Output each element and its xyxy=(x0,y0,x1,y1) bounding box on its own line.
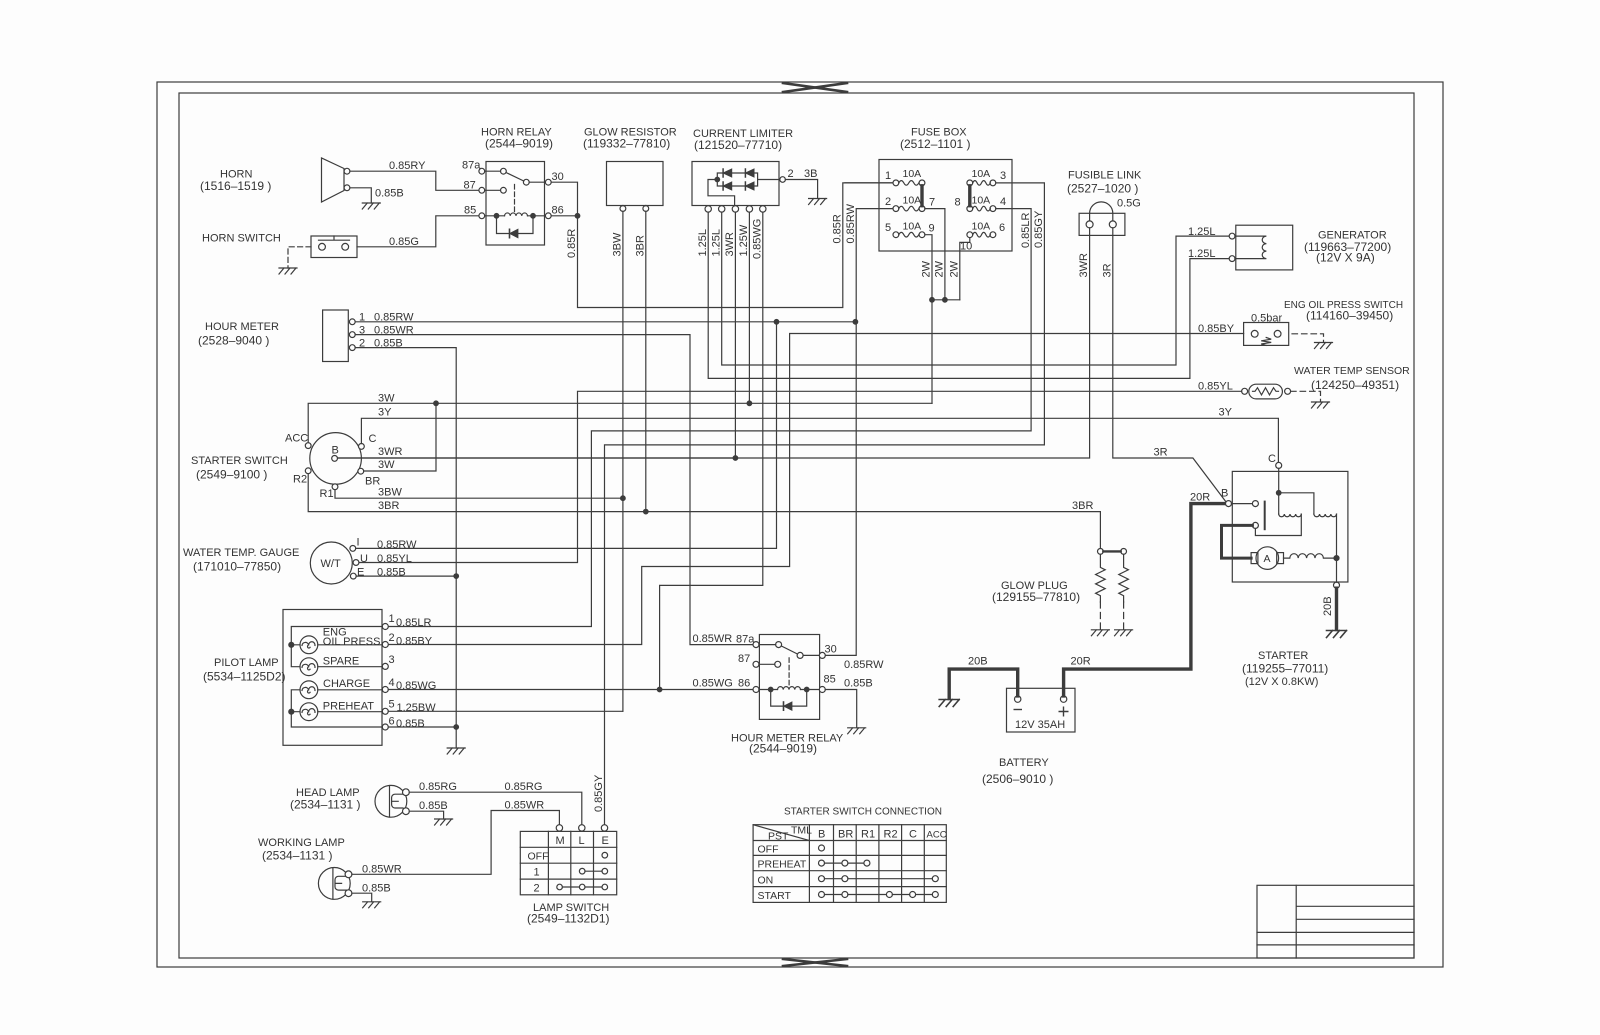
pilot lamp terminal 6 xyxy=(382,724,388,730)
svg-text:0.85WR: 0.85WR xyxy=(374,325,414,337)
wire 20R battery to starter B xyxy=(1064,504,1225,696)
svg-text:W/T: W/T xyxy=(321,558,341,570)
svg-text:FUSIBLE LINK: FUSIBLE LINK xyxy=(1068,170,1142,182)
wire 0.85B hour meter 2 xyxy=(355,348,456,748)
fuse box xyxy=(879,160,1012,252)
wire 0.85WR hour meter 3 to relay 87a xyxy=(355,335,753,645)
svg-text:(2544–9019): (2544–9019) xyxy=(749,742,817,756)
horn relay terminal 87 xyxy=(479,187,485,193)
svg-text:C: C xyxy=(909,829,917,841)
svg-text:(2534–1131 ): (2534–1131 ) xyxy=(262,849,333,863)
svg-text:I: I xyxy=(357,537,360,549)
horn relay dashed link xyxy=(514,185,516,214)
glow plug terminal right xyxy=(1121,549,1127,555)
cut mark top xyxy=(783,83,847,92)
svg-text:6: 6 xyxy=(389,716,395,728)
wire 2W junction down to 3W xyxy=(931,300,933,404)
pilot lamp terminal 3 xyxy=(382,663,388,669)
node 0.85RW gauge riser xyxy=(774,320,779,325)
svg-text:3R: 3R xyxy=(1154,447,1168,459)
hour meter terminal 1 xyxy=(349,319,355,325)
pilot lamp terminal 4 xyxy=(382,687,388,693)
starter pull-in coil xyxy=(1314,514,1337,517)
hour meter terminal 2 xyxy=(349,345,355,351)
starter contact bar xyxy=(1264,502,1266,530)
svg-text:PREHEAT: PREHEAT xyxy=(323,701,374,713)
glow resistor box xyxy=(607,162,664,206)
svg-text:(114160–39450): (114160–39450) xyxy=(1306,309,1393,323)
pilot lamp bulb charge xyxy=(300,681,318,699)
wire 0.85R node to fuse 1 xyxy=(578,183,893,308)
fusible link box xyxy=(1079,213,1125,235)
svg-text:HORN SWITCH: HORN SWITCH xyxy=(202,233,281,245)
svg-text:0.85LR: 0.85LR xyxy=(396,617,432,629)
node 0.85B pilot6 xyxy=(454,725,459,730)
hour meter relay armature pivot xyxy=(797,652,803,658)
node 3WR pin4 xyxy=(733,456,738,461)
current limiter bridge rails xyxy=(717,173,780,186)
horn terminal bottom xyxy=(344,185,350,191)
svg-text:87: 87 xyxy=(464,180,476,192)
svg-text:1.25L: 1.25L xyxy=(1188,226,1216,238)
svg-text:1: 1 xyxy=(534,867,540,879)
wire 0.85RY horn to relay 87 xyxy=(350,171,479,190)
hour meter relay inner contact 87a xyxy=(776,642,782,648)
ground 20B starter xyxy=(1327,631,1347,638)
svg-text:BR: BR xyxy=(365,476,380,488)
svg-text:4: 4 xyxy=(389,677,395,689)
current limiter diode 1 xyxy=(722,169,724,177)
svg-text:0.85LR: 0.85LR xyxy=(1020,212,1032,248)
pilot lamp box xyxy=(283,610,382,746)
svg-text:SPARE: SPARE xyxy=(323,656,359,668)
svg-text:20R: 20R xyxy=(1071,656,1091,668)
svg-text:1: 1 xyxy=(359,312,365,324)
table header diagonal xyxy=(753,825,809,841)
pilot lamp bulb preheat xyxy=(300,703,318,721)
fuse box bus bar left xyxy=(920,186,923,206)
wire 3W ACC run xyxy=(308,403,932,442)
svg-text:E: E xyxy=(602,835,609,847)
svg-text:C: C xyxy=(1268,453,1276,465)
starter switch terminal C xyxy=(359,444,365,450)
hour meter relay coil junction right xyxy=(804,687,809,692)
title block xyxy=(1257,885,1414,958)
hour meter box xyxy=(323,310,349,362)
hour meter relay terminal 30 xyxy=(819,652,825,658)
starter hold-in coil xyxy=(1279,514,1302,517)
wire 0.85WG pilot4 to relay 86 xyxy=(388,689,753,691)
svg-text:3Y: 3Y xyxy=(1219,407,1233,419)
eng oil press switch contact left xyxy=(1251,330,1258,337)
horn symbol xyxy=(322,158,345,202)
svg-text:10: 10 xyxy=(960,241,972,253)
svg-text:1.25BW: 1.25BW xyxy=(397,702,437,714)
fusible link element arc xyxy=(1090,202,1113,221)
current limiter pin 5 xyxy=(746,206,752,212)
svg-text:3Y: 3Y xyxy=(378,407,392,419)
svg-text:86: 86 xyxy=(552,205,564,217)
current limiter internal step xyxy=(708,180,735,206)
svg-text:1.25L: 1.25L xyxy=(697,229,709,257)
svg-text:BR: BR xyxy=(838,829,853,841)
horn switch contact right xyxy=(342,243,349,250)
glow resistor pin right xyxy=(643,206,649,212)
water temp gauge body xyxy=(310,542,352,584)
svg-text:0.85GY: 0.85GY xyxy=(593,774,605,812)
hour meter relay inner contact 87 xyxy=(775,661,781,667)
svg-text:(5534–1125D2): (5534–1125D2) xyxy=(203,670,286,684)
wire 0.85RG head lamp to lamp switch L xyxy=(409,792,582,825)
wire 0.85WG pin6 route xyxy=(660,212,763,689)
lamp switch terminal E xyxy=(601,825,607,831)
svg-text:4: 4 xyxy=(1000,196,1006,208)
svg-text:2W: 2W xyxy=(949,260,961,277)
svg-text:3BR: 3BR xyxy=(635,235,647,256)
svg-text:0.85B: 0.85B xyxy=(419,800,448,812)
svg-text:PREHEAT: PREHEAT xyxy=(758,859,807,871)
node bus lamp4 xyxy=(289,709,294,714)
battery plus sign xyxy=(1059,707,1069,717)
svg-text:20B: 20B xyxy=(968,656,988,668)
node 3BR glow resistor xyxy=(644,509,649,514)
svg-text:B: B xyxy=(332,445,339,457)
wire fuse1 to 0.85R xyxy=(845,182,893,184)
svg-text:3W: 3W xyxy=(378,393,395,405)
svg-text:(2528–9040 ): (2528–9040 ) xyxy=(198,334,269,348)
wire 0.85B gauge E xyxy=(356,575,456,577)
svg-text:(119332–77810): (119332–77810) xyxy=(583,137,670,151)
svg-text:0.85G: 0.85G xyxy=(389,236,419,248)
starter contact moving xyxy=(1252,522,1258,528)
working lamp body xyxy=(318,868,350,900)
starter switch terminal ACC xyxy=(305,443,311,449)
ground glow plug right xyxy=(1115,630,1133,636)
glow resistor pin stubs xyxy=(623,205,646,207)
svg-text:(12V X 0.8KW): (12V X 0.8KW) xyxy=(1245,676,1318,688)
water temp gauge terminal U xyxy=(353,560,359,566)
node 3BW glow resistor xyxy=(621,496,626,501)
eng oil press switch contact right xyxy=(1274,330,1281,337)
svg-text:3W: 3W xyxy=(378,459,395,471)
wire 0.85GY fuse3 to lamp switch E xyxy=(605,183,1045,825)
node 0.85R junction xyxy=(575,214,580,219)
starter terminal B xyxy=(1226,501,1232,507)
svg-text:(119255–77011): (119255–77011) xyxy=(1242,662,1328,676)
svg-text:5: 5 xyxy=(885,222,891,234)
water temp sensor body xyxy=(1249,384,1283,399)
horn relay diode xyxy=(509,229,511,237)
starter switch terminal BR xyxy=(358,468,364,474)
svg-text:10A: 10A xyxy=(972,168,991,180)
pilot lamp bulb spare xyxy=(300,658,318,676)
svg-text:STARTER SWITCH: STARTER SWITCH xyxy=(191,455,288,467)
starter bottom terminal xyxy=(1334,582,1340,588)
wire 0.85G horn switch to relay 85 xyxy=(357,216,479,247)
svg-text:0.85YL: 0.85YL xyxy=(1198,381,1233,393)
starter contact fixed xyxy=(1252,501,1258,507)
svg-text:1.25L: 1.25L xyxy=(711,229,723,257)
fuse box bus bar right xyxy=(968,186,971,206)
generator coil xyxy=(1235,236,1266,259)
node starter field xyxy=(1334,556,1339,561)
svg-text:0.85WG: 0.85WG xyxy=(752,219,764,259)
glow resistor pin left xyxy=(620,206,626,212)
svg-text:0.85R: 0.85R xyxy=(832,214,844,243)
node 3W pin5 xyxy=(747,401,752,406)
water temp gauge terminal I xyxy=(350,546,356,552)
node 3W BR tie xyxy=(434,401,439,406)
horn relay stubs xyxy=(485,171,546,190)
head lamp terminal top xyxy=(403,789,410,796)
wire 3BR glow resistor down xyxy=(645,211,647,511)
svg-text:9: 9 xyxy=(929,223,935,235)
svg-text:3: 3 xyxy=(359,325,365,337)
pilot lamp internal row links xyxy=(291,645,382,712)
svg-text:0.85WR: 0.85WR xyxy=(693,633,733,645)
fuse F2 xyxy=(893,206,899,212)
svg-text:1: 1 xyxy=(885,170,891,182)
svg-text:0.85GY: 0.85GY xyxy=(1033,210,1045,248)
hour meter relay terminal 87a xyxy=(753,642,759,648)
svg-text:20R: 20R xyxy=(1190,492,1210,504)
wire dashed horn switch to ground xyxy=(288,247,311,268)
battery terminal plus xyxy=(1060,696,1066,702)
svg-text:0.85WG: 0.85WG xyxy=(693,678,733,690)
wire 0.85RW hour meter 1 xyxy=(355,321,855,323)
current limiter diode 2 xyxy=(744,169,746,177)
starter contact link from B xyxy=(1232,503,1253,505)
water temp sensor terminal left xyxy=(1242,388,1248,394)
svg-text:E: E xyxy=(357,567,364,579)
svg-text:8: 8 xyxy=(955,197,961,209)
starter motor feed thick xyxy=(1222,525,1253,558)
starter switch terminal R2 xyxy=(305,468,311,474)
cut mark bottom xyxy=(783,959,847,966)
svg-text:10A: 10A xyxy=(903,168,922,180)
horn switch contact left xyxy=(319,243,326,250)
table circles start row xyxy=(819,892,825,898)
svg-text:PST: PST xyxy=(768,831,789,843)
generator box xyxy=(1236,225,1293,270)
svg-text:0.85RG: 0.85RG xyxy=(419,781,457,793)
svg-text:2W: 2W xyxy=(921,260,933,277)
svg-text:R2: R2 xyxy=(884,829,898,841)
hour meter relay diode loop xyxy=(771,690,807,707)
starter pull-in branch xyxy=(1279,493,1314,514)
svg-text:STARTER SWITCH CONNECTION: STARTER SWITCH CONNECTION xyxy=(784,807,942,818)
eng oil press switch spring xyxy=(1261,338,1271,346)
fuse F3 xyxy=(967,180,973,186)
wire 0.85B relay 85 to ground xyxy=(825,690,856,728)
wire 3B to ground xyxy=(785,180,817,199)
hour meter relay coil xyxy=(759,689,819,691)
svg-text:C: C xyxy=(369,433,377,445)
ground 3B xyxy=(809,199,827,205)
current limiter pin 1 xyxy=(705,206,711,212)
svg-text:1.25L: 1.25L xyxy=(1188,248,1216,260)
hour meter relay terminal 87 xyxy=(753,661,759,667)
svg-text:OIL PRESS: OIL PRESS xyxy=(323,636,381,648)
ground horn xyxy=(362,203,380,209)
wire 0.85BY pilot2 to oil switch xyxy=(388,334,1243,645)
svg-text:2: 2 xyxy=(885,196,891,208)
starter box xyxy=(1232,471,1348,582)
starter terminal C xyxy=(1276,462,1282,468)
svg-text:M: M xyxy=(556,835,565,847)
current limiter node xyxy=(715,177,720,182)
svg-text:(2549–9100 ): (2549–9100 ) xyxy=(196,468,267,482)
wire dashed sensor to ground xyxy=(1291,391,1321,401)
starter pull-in to motor node xyxy=(1336,514,1338,558)
starter switch connection table xyxy=(753,825,946,903)
border outer frame xyxy=(157,82,1443,967)
pilot lamp terminal 1 xyxy=(382,624,388,630)
horn relay coil junction right xyxy=(531,214,536,219)
wire 0.85B head lamp xyxy=(409,811,443,819)
svg-text:3BR: 3BR xyxy=(378,500,399,512)
svg-text:3WR: 3WR xyxy=(724,232,736,257)
hour meter relay armature arm xyxy=(781,646,797,654)
wire 3R fusible link to starter B xyxy=(1113,228,1226,502)
pilot lamp bulb eng oil press xyxy=(300,636,318,654)
svg-text:PILOT LAMP: PILOT LAMP xyxy=(214,657,279,669)
svg-text:0.85B: 0.85B xyxy=(377,567,406,579)
current limiter pin 3 xyxy=(719,206,725,212)
svg-text:(2549–1132D1): (2549–1132D1) xyxy=(527,912,610,926)
wire 0.85B working lamp xyxy=(352,893,372,902)
svg-text:0.85RW: 0.85RW xyxy=(844,659,884,671)
ground 0.85B xyxy=(447,748,465,754)
svg-text:3: 3 xyxy=(1000,170,1006,182)
svg-text:BATTERY: BATTERY xyxy=(999,757,1049,769)
generator terminal bottom xyxy=(1229,256,1235,262)
horn switch bar xyxy=(319,236,350,240)
starter switch terminal R1 xyxy=(332,484,338,490)
wire 0.85RW fuse2 to hour meter relay 30 xyxy=(825,209,893,656)
svg-text:10A: 10A xyxy=(972,195,991,207)
wire 0.85YL gauge U to sensor xyxy=(359,391,1242,562)
fusible link terminal right xyxy=(1109,221,1116,228)
horn terminal top xyxy=(344,168,350,174)
svg-text:2: 2 xyxy=(534,882,540,894)
starter field coil xyxy=(1284,554,1337,558)
svg-text:HOUR METER: HOUR METER xyxy=(205,321,279,333)
svg-text:B: B xyxy=(818,829,825,841)
svg-text:0.85B: 0.85B xyxy=(844,678,873,690)
svg-text:WORKING LAMP: WORKING LAMP xyxy=(258,837,345,849)
fuse F4 xyxy=(967,206,973,212)
svg-text:30: 30 xyxy=(825,644,837,656)
svg-text:0.85B: 0.85B xyxy=(396,718,425,730)
svg-text:20B: 20B xyxy=(1322,596,1334,616)
svg-text:CHARGE: CHARGE xyxy=(323,678,370,690)
hour meter relay dashed link xyxy=(788,658,790,687)
svg-text:(124250–49351): (124250–49351) xyxy=(1311,378,1399,392)
wire 2W junction bar xyxy=(932,299,960,301)
svg-text:U: U xyxy=(360,553,368,565)
svg-text:2: 2 xyxy=(359,338,365,350)
svg-text:10A: 10A xyxy=(903,195,922,207)
fusible link terminal left xyxy=(1086,221,1093,228)
wire 3Y C to starter C xyxy=(361,418,1278,462)
svg-text:0.5bar: 0.5bar xyxy=(1251,313,1283,325)
hour meter relay stubs xyxy=(759,645,819,665)
water temp gauge terminal E xyxy=(350,573,356,579)
svg-text:(2544–9019): (2544–9019) xyxy=(485,137,553,151)
svg-text:0.85B: 0.85B xyxy=(375,188,404,200)
wire 0.85B horn to ground xyxy=(350,188,371,203)
svg-text:WATER TEMP SENSOR: WATER TEMP SENSOR xyxy=(1294,365,1410,377)
horn relay armature arm xyxy=(506,173,524,182)
svg-text:0.85BY: 0.85BY xyxy=(1198,323,1235,335)
pilot lamp terminal 2 xyxy=(382,642,388,648)
svg-text:OFF: OFF xyxy=(528,851,549,863)
fuse F5 xyxy=(893,232,899,238)
svg-text:0.85R: 0.85R xyxy=(566,229,578,258)
svg-text:6: 6 xyxy=(999,222,1005,234)
svg-text:12V 35AH: 12V 35AH xyxy=(1015,719,1065,731)
wire 0.85B pilot6 xyxy=(388,726,456,728)
battery minus sign xyxy=(1014,709,1023,711)
svg-text:87: 87 xyxy=(738,653,750,665)
glow plug element right xyxy=(1119,554,1129,602)
svg-text:3BW: 3BW xyxy=(612,232,624,256)
ground head lamp xyxy=(435,819,453,825)
svg-text:(171010–77850): (171010–77850) xyxy=(193,560,281,574)
wire relay 30 to node xyxy=(551,182,577,213)
svg-text:(1516–1519 ): (1516–1519 ) xyxy=(200,179,271,193)
svg-text:86: 86 xyxy=(738,678,750,690)
horn relay armature pivot xyxy=(523,179,529,185)
wire relay 86 to node xyxy=(551,215,577,217)
horn relay terminal 30 xyxy=(545,179,551,185)
starter solenoid feed xyxy=(1278,468,1280,514)
horn relay coil junction left xyxy=(494,214,499,219)
wire 0.85LR fuse4 to pilot lamp 1 xyxy=(388,209,1031,627)
svg-text:A: A xyxy=(1264,553,1271,565)
starter brush left xyxy=(1251,553,1258,564)
starter brush right xyxy=(1277,553,1284,564)
wire 1.25W pin5 down xyxy=(748,212,750,403)
svg-text:(2534–1131 ): (2534–1131 ) xyxy=(290,798,361,812)
wire 0.85WR working lamp to lamp switch M xyxy=(352,811,560,875)
table circles preheat row xyxy=(819,860,825,866)
svg-text:START: START xyxy=(758,890,792,902)
hour meter relay diode xyxy=(783,702,785,710)
lamp switch contact off-E xyxy=(602,852,608,858)
lamp switch terminal L xyxy=(579,825,585,831)
working lamp terminal bottom xyxy=(345,890,352,897)
svg-text:3: 3 xyxy=(389,654,395,666)
pilot lamp terminal 5 xyxy=(382,708,388,714)
svg-text:3R: 3R xyxy=(1102,263,1114,277)
svg-text:R1: R1 xyxy=(861,829,875,841)
wire 3WR B run xyxy=(338,457,733,459)
battery box xyxy=(1007,688,1076,732)
svg-text:2: 2 xyxy=(389,632,395,644)
svg-text:10A: 10A xyxy=(903,221,922,233)
starter switch terminal B xyxy=(332,456,338,462)
svg-text:0.85RY: 0.85RY xyxy=(389,160,426,172)
horn relay terminal 86 xyxy=(545,213,551,219)
starter hold-in return hook xyxy=(1255,514,1301,535)
table circles on row xyxy=(819,876,825,882)
svg-text:0.85BY: 0.85BY xyxy=(396,636,433,648)
lamp switch contacts row1 xyxy=(579,868,585,874)
ground horn switch xyxy=(279,268,297,274)
svg-text:85: 85 xyxy=(824,674,836,686)
